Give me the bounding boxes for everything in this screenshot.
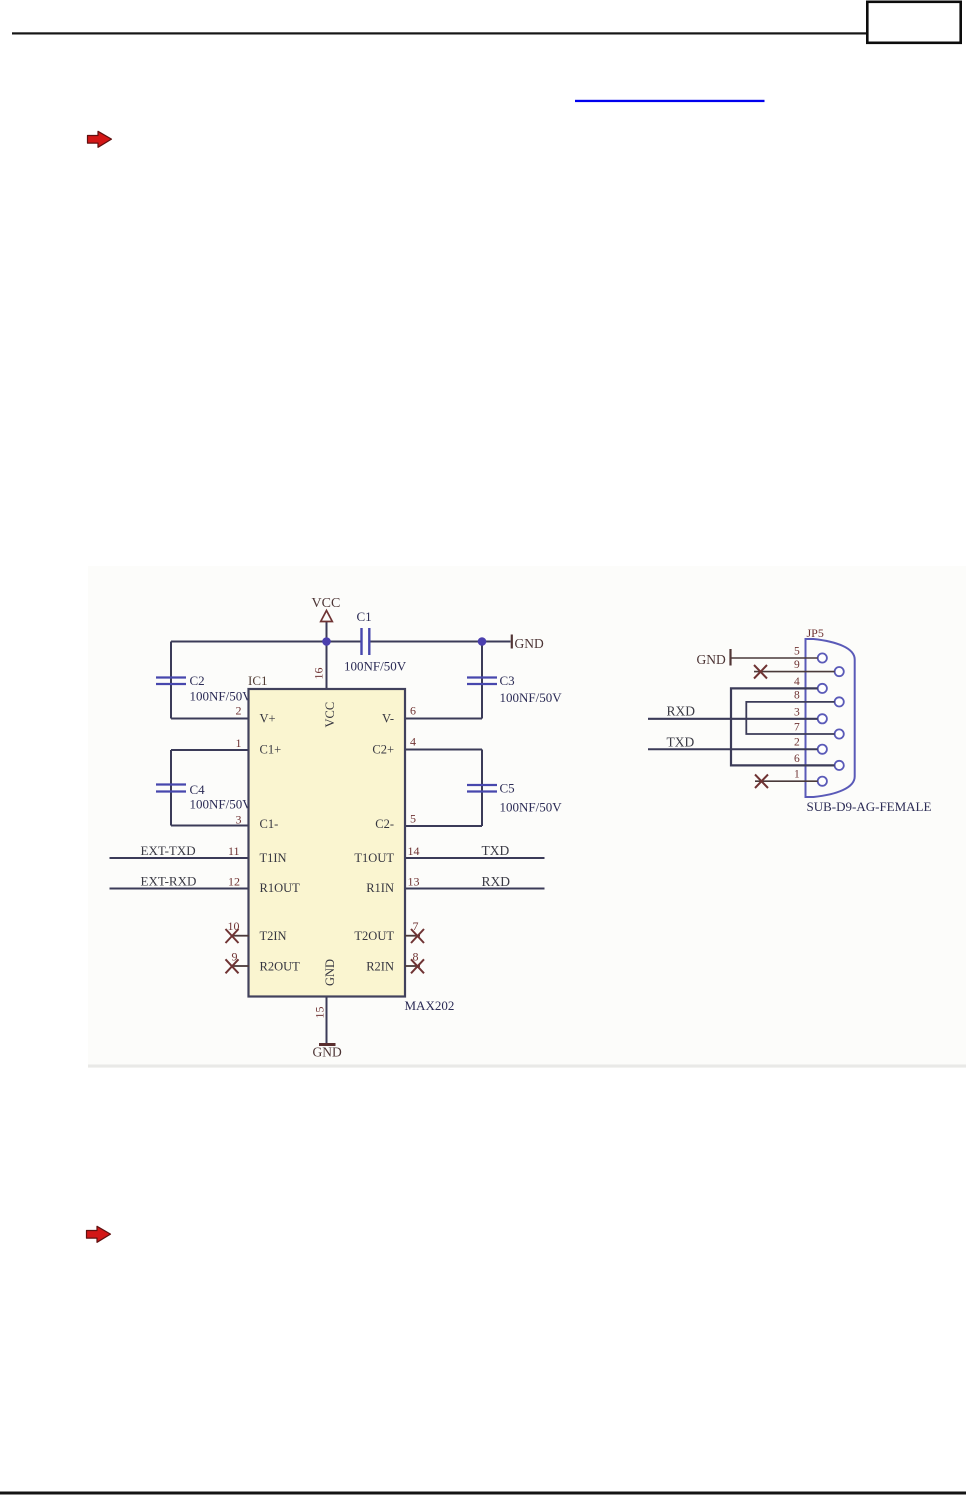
GND label at DB9 [697, 652, 726, 667]
wire: pin 15 drop to GND [326, 997, 328, 1045]
svg-text:5: 5 [794, 646, 800, 658]
value MAX202 [405, 998, 455, 1013]
pin number 3 [236, 813, 242, 827]
net label EXT-RXD [141, 874, 197, 889]
svg-text:7: 7 [794, 722, 800, 734]
label C4 [190, 782, 206, 797]
wire: pin 1 net [171, 749, 249, 751]
svg-text:MAX202: MAX202 [405, 998, 455, 1013]
svg-text:TXD: TXD [482, 843, 510, 858]
junction at VCC [322, 637, 331, 646]
svg-text:2: 2 [236, 704, 242, 718]
label C5 [500, 781, 515, 796]
wire: right vertical through C3 [481, 642, 483, 719]
JP5 pin number 8 [794, 689, 800, 701]
pin name T1OUT [354, 851, 394, 865]
footer rule [0, 1492, 966, 1495]
pin name C2+ [372, 743, 394, 757]
pin stub T2OUT (pin 7, n.c.) [405, 935, 420, 937]
svg-text:C1+: C1+ [260, 743, 282, 757]
pin name V+ [260, 712, 276, 726]
pin stub R2IN (pin 8, n.c.) [405, 965, 420, 967]
pin circle 8 [835, 697, 844, 706]
loopback wire pin8 to pin7 [746, 702, 834, 734]
VCC supply symbol [321, 611, 333, 622]
JP5 pin number 4 [794, 676, 800, 688]
svg-text:9: 9 [794, 659, 800, 671]
svg-text:GND: GND [697, 652, 726, 667]
svg-text:VCC: VCC [323, 702, 337, 728]
capacitor C1 [362, 628, 370, 655]
svg-text:R2IN: R2IN [366, 960, 394, 974]
svg-text:C1: C1 [357, 609, 372, 624]
svg-text:14: 14 [408, 844, 420, 858]
svg-text:15: 15 [313, 1007, 327, 1019]
red arrow bullet 1 [88, 131, 112, 147]
no-connect cross pin 8 [411, 959, 424, 973]
capacitor C2 [156, 678, 186, 685]
pin name V- [382, 712, 394, 726]
value SUB-D9-AG-FEMALE [807, 799, 932, 814]
pin name GND (rotated) [323, 959, 337, 986]
svg-text:100NF/50V: 100NF/50V [344, 659, 407, 674]
svg-text:T1OUT: T1OUT [354, 851, 394, 865]
svg-text:T1IN: T1IN [260, 851, 287, 865]
pin 1 stub [755, 780, 818, 782]
pin name C1- [260, 817, 279, 831]
connector shell SUB-D9 [806, 639, 855, 797]
pin name R1OUT [260, 881, 301, 895]
JP5 pin number 1 [794, 769, 800, 781]
svg-text:4: 4 [410, 735, 416, 749]
pin circle 6 [835, 761, 844, 770]
pin stub T2IN (pin 10, n.c.) [234, 935, 250, 937]
wire: left vertical through C4 [170, 750, 172, 826]
svg-text:C4: C4 [190, 782, 206, 797]
TXD wire to pin 2 [648, 748, 818, 750]
label C1 [357, 609, 372, 624]
wire: pin 5 net [405, 825, 482, 827]
svg-text:VCC: VCC [312, 596, 341, 611]
svg-text:V-: V- [382, 712, 394, 726]
wire: pin 3 net [171, 825, 249, 827]
svg-text:T2IN: T2IN [260, 929, 287, 943]
svg-text:TXD: TXD [667, 735, 695, 750]
pin name R2OUT [260, 960, 301, 974]
net label TXD [482, 843, 510, 858]
RXD wire to pin 3 [648, 718, 818, 720]
pin number 8 [413, 950, 419, 964]
no-connect cross pin 7 [411, 929, 424, 943]
svg-text:3: 3 [794, 706, 800, 718]
pin circle 1 [818, 777, 827, 786]
svg-text:R1IN: R1IN [366, 881, 394, 895]
pin name T2OUT [354, 929, 394, 943]
svg-text:C3: C3 [500, 673, 515, 688]
pin name T2IN [260, 929, 287, 943]
no-connect cross pin 1 of JP5 [755, 775, 768, 789]
wire: RXD net from pin 13 [405, 888, 545, 890]
value C1 100NF/50V [344, 659, 407, 674]
svg-text:C2-: C2- [375, 817, 394, 831]
net label TXD (DB9) [667, 735, 695, 750]
JP5 pin number 2 [794, 737, 800, 749]
pin name VCC (rotated) [323, 702, 337, 728]
svg-text:13: 13 [408, 875, 420, 889]
no-connect cross pin 9 [226, 959, 239, 973]
wire: VCC drop to pin 16 [326, 622, 328, 690]
svg-text:100NF/50V: 100NF/50V [500, 690, 563, 705]
svg-text:100NF/50V: 100NF/50V [190, 689, 253, 704]
svg-text:IC1: IC1 [248, 673, 268, 688]
svg-text:C5: C5 [500, 781, 515, 796]
capacitor C3 [467, 678, 497, 685]
pin number 2 [236, 704, 242, 718]
svg-text:EXT-TXD: EXT-TXD [141, 843, 196, 858]
GND tick (top right) [511, 635, 513, 649]
svg-text:C2+: C2+ [372, 743, 394, 757]
svg-text:R1OUT: R1OUT [260, 881, 301, 895]
net label RXD [482, 874, 511, 889]
wire: TXD net from pin 14 [405, 857, 545, 859]
wire: right vertical through C5 [481, 750, 483, 827]
value C5 100NF/50V [500, 800, 563, 815]
pin number 7 [413, 919, 419, 933]
capacitor C5 [467, 785, 497, 792]
label C2 [190, 673, 205, 688]
pin name C2- [375, 817, 394, 831]
pin number 9 [232, 950, 238, 964]
red arrow bullet 2 [87, 1226, 111, 1242]
label JP5 [807, 626, 824, 640]
svg-text:C2: C2 [190, 673, 205, 688]
svg-text:1: 1 [236, 736, 242, 750]
pin name R1IN [366, 881, 394, 895]
pin name T1IN [260, 851, 287, 865]
wire: pin 4 net [405, 749, 482, 751]
pin number 15 (rotated) [313, 1007, 327, 1019]
svg-text:SUB-D9-AG-FEMALE: SUB-D9-AG-FEMALE [807, 799, 932, 814]
svg-text:T2OUT: T2OUT [354, 929, 394, 943]
svg-text:4: 4 [794, 676, 800, 688]
svg-text:C1-: C1- [260, 817, 279, 831]
no-connect cross pin 10 [226, 929, 239, 943]
wire: EXT-TXD net to pin 11 [110, 857, 250, 859]
pin number 13 [408, 875, 420, 889]
svg-text:3: 3 [236, 813, 242, 827]
loopback wire pin4 to pin6 [731, 688, 835, 765]
pin number 10 [228, 919, 240, 933]
wire: top rail left of C1 [171, 641, 361, 643]
wire: left vertical through C2 [170, 642, 172, 719]
JP5 pin number 6 [794, 753, 800, 765]
wire: pin 2 net [171, 718, 249, 720]
pin name R2IN [366, 960, 394, 974]
pin circle 9 [835, 667, 844, 676]
svg-text:RXD: RXD [667, 704, 696, 719]
svg-text:100NF/50V: 100NF/50V [190, 797, 253, 812]
svg-text:16: 16 [312, 668, 326, 680]
JP5 pin number 5 [794, 646, 800, 658]
pin number 1 [236, 736, 242, 750]
svg-text:GND: GND [313, 1045, 342, 1060]
value C2 100NF/50V [190, 689, 253, 704]
svg-text:GND: GND [515, 636, 544, 651]
pin 5 stub [732, 657, 818, 659]
svg-text:12: 12 [228, 875, 240, 889]
label IC1 [248, 673, 268, 688]
value C4 100NF/50V [190, 797, 253, 812]
net label RXD (DB9) [667, 704, 696, 719]
wire: top rail right of C1 [369, 641, 510, 643]
pin name C1+ [260, 743, 282, 757]
hyperlink underline [575, 100, 765, 102]
svg-text:11: 11 [228, 844, 240, 858]
svg-text:5: 5 [410, 812, 416, 826]
value C3 100NF/50V [500, 690, 563, 705]
wire: EXT-RXD net to pin 12 [110, 888, 250, 890]
pin circle 4 [818, 684, 827, 693]
svg-text:6: 6 [410, 704, 416, 718]
pin circle 7 [835, 729, 844, 738]
pin 9 stub [754, 671, 835, 673]
pin number 12 [228, 875, 240, 889]
svg-text:2: 2 [794, 737, 800, 749]
pin number 11 [228, 844, 240, 858]
pin circle 3 [818, 714, 827, 723]
pin number 4 [410, 735, 416, 749]
GND tick at DB9 pin 5 [729, 649, 731, 666]
svg-text:1: 1 [794, 769, 800, 781]
net label EXT-TXD [141, 843, 196, 858]
pin circle 2 [818, 745, 827, 754]
pin stub R2OUT (pin 9, n.c.) [234, 965, 250, 967]
scan background [88, 566, 966, 1068]
pin number 16 (rotated) [312, 668, 326, 680]
label C3 [500, 673, 515, 688]
svg-text:8: 8 [794, 689, 800, 701]
svg-text:6: 6 [794, 753, 800, 765]
pin number 6 [410, 704, 416, 718]
capacitor C4 [156, 785, 186, 792]
GND label (top right) [515, 636, 544, 651]
JP5 pin number 9 [794, 659, 800, 671]
JP5 pin number 3 [794, 706, 800, 718]
svg-text:EXT-RXD: EXT-RXD [141, 874, 197, 889]
svg-text:JP5: JP5 [807, 626, 824, 640]
header rule [12, 32, 867, 34]
junction at C3 top [478, 637, 487, 646]
svg-text:100NF/50V: 100NF/50V [500, 800, 563, 815]
svg-text:RXD: RXD [482, 874, 511, 889]
svg-text:V+: V+ [260, 712, 276, 726]
pin circle 5 [818, 653, 827, 662]
GND label (bottom) [313, 1045, 342, 1060]
JP5 pin number 7 [794, 722, 800, 734]
header page-number box [867, 2, 960, 43]
pin number 14 [408, 844, 420, 858]
wire: pin 6 net [405, 718, 482, 720]
IC U1 body (MAX202) [249, 689, 406, 997]
no-connect cross pin 9 of JP5 [754, 665, 767, 679]
svg-text:GND: GND [323, 959, 337, 986]
ground symbol (bottom) [319, 1043, 336, 1046]
svg-text:R2OUT: R2OUT [260, 960, 301, 974]
pin number 5 [410, 812, 416, 826]
VCC label [312, 596, 341, 611]
